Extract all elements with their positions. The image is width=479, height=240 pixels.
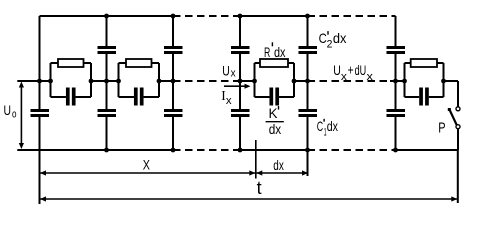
svg-text:x: x xyxy=(367,71,374,83)
svg-text:x: x xyxy=(341,71,348,83)
svg-text:dU: dU xyxy=(355,62,367,78)
svg-text:U: U xyxy=(333,62,341,78)
svg-text:dx: dx xyxy=(269,121,282,137)
svg-text:x: x xyxy=(226,95,232,107)
svg-text:dx: dx xyxy=(333,30,347,46)
svg-text:R: R xyxy=(264,44,270,60)
svg-text:dx: dx xyxy=(273,157,284,173)
svg-text:X: X xyxy=(143,157,151,173)
svg-text:t: t xyxy=(257,178,262,198)
svg-text:+: + xyxy=(348,61,354,77)
svg-text:C: C xyxy=(319,30,327,46)
svg-text:K: K xyxy=(269,105,279,121)
svg-text:dx: dx xyxy=(274,44,286,60)
svg-text:dx: dx xyxy=(327,118,338,134)
svg-text:U: U xyxy=(4,102,12,118)
svg-text:P: P xyxy=(438,120,445,137)
svg-text:2: 2 xyxy=(327,39,333,51)
svg-text:o: o xyxy=(12,109,17,121)
svg-text:x: x xyxy=(231,68,236,80)
svg-text:C: C xyxy=(317,118,323,134)
svg-text:U: U xyxy=(222,62,230,78)
